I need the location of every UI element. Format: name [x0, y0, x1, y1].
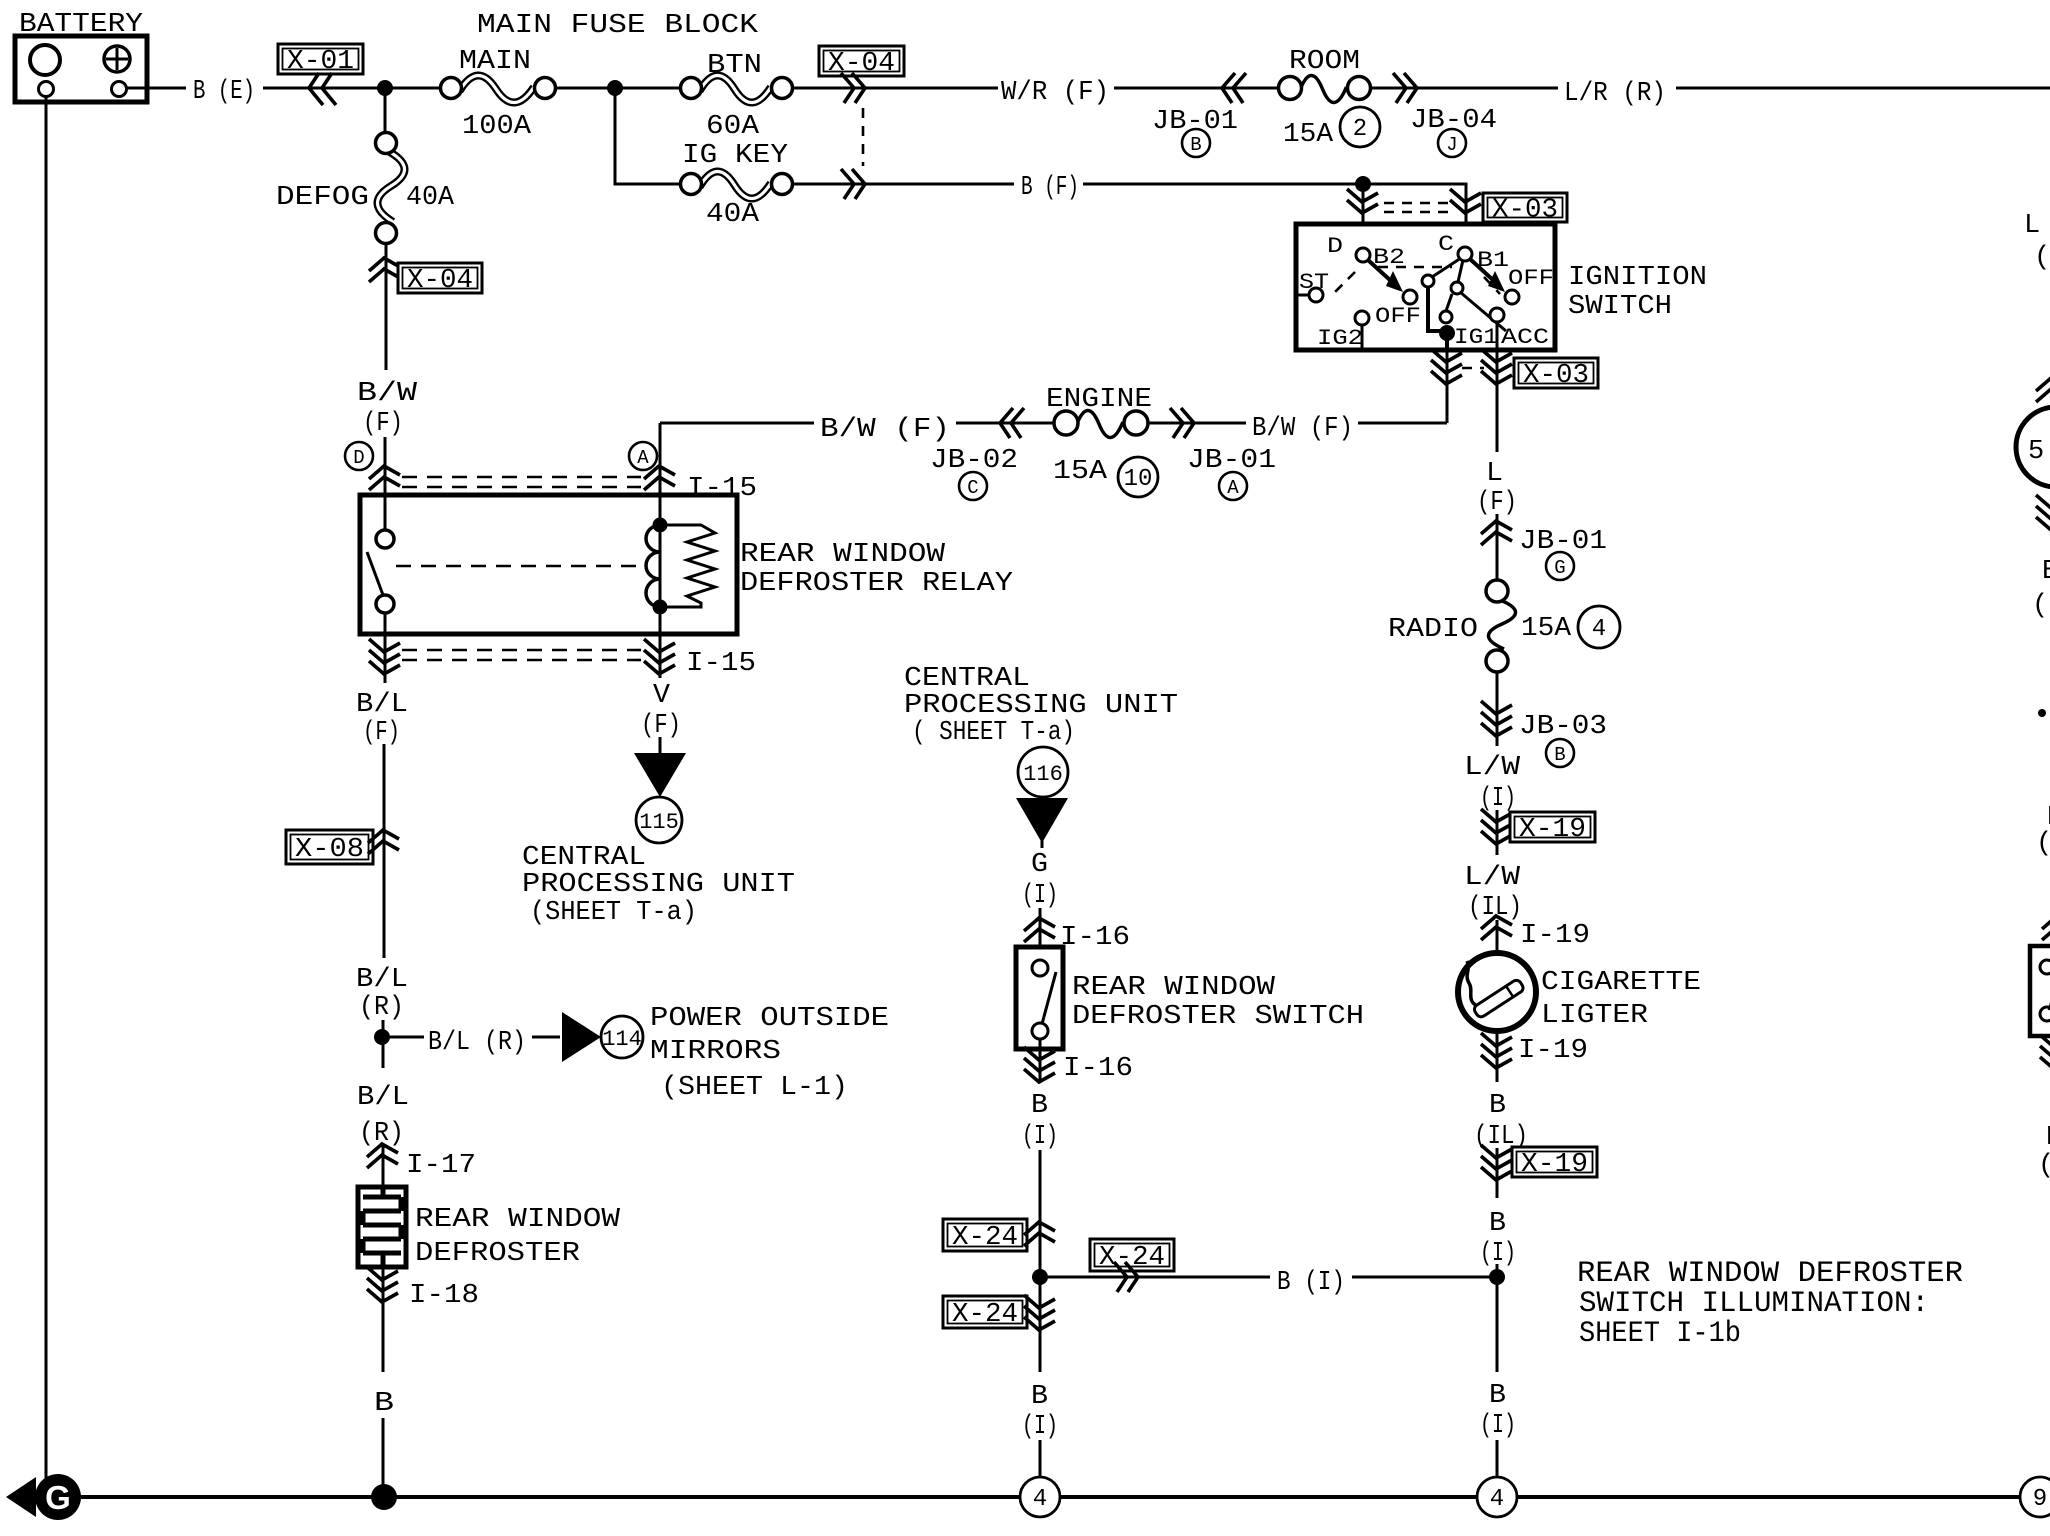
wire to ground circle 4 right	[1496, 1440, 1499, 1477]
wire illumination link right segment	[1352, 1276, 1497, 1279]
adjacent circuit switch box fragment	[2030, 946, 2050, 1036]
wire label L (F)	[1477, 459, 1517, 518]
svg-text:IG2: IG2	[1317, 326, 1363, 351]
wire ACC down to L (F)	[1496, 350, 1499, 452]
svg-text:B (F): B (F)	[1021, 173, 1079, 203]
connector JB-02 (C)	[930, 408, 1024, 500]
svg-text:B/W: B/W	[357, 379, 418, 409]
svg-text:L/W: L/W	[1464, 753, 1521, 783]
svg-text:I-17: I-17	[406, 1151, 476, 1181]
adjacent circuit connector fragment lower	[2040, 1035, 2050, 1070]
svg-text:5: 5	[2028, 437, 2044, 467]
svg-text:(F): (F)	[363, 409, 403, 439]
svg-text:(I): (I)	[2036, 829, 2050, 859]
svg-text:B (E): B (E)	[193, 77, 255, 107]
wire battery negative to ground bus	[45, 97, 48, 1497]
svg-text:C: C	[967, 477, 978, 499]
svg-text:B/L: B/L	[357, 1083, 409, 1113]
wire B/L (F) to X-08	[383, 744, 386, 958]
wire junction down to DEFOG fuse	[384, 88, 387, 133]
svg-text:(SHEET L-1): (SHEET L-1)	[661, 1073, 848, 1103]
relay resistor	[660, 525, 715, 607]
wire label B/L (R) lower	[357, 1083, 409, 1149]
connector I-17	[367, 1144, 476, 1181]
rear window defroster switch illumination note	[1577, 1257, 1963, 1351]
fuse DEFOG 40A	[276, 133, 455, 244]
ground node 4 right	[1477, 1477, 1517, 1517]
wire branch down to relay	[659, 423, 662, 495]
svg-text:2: 2	[1353, 116, 1367, 143]
svg-text:JB-03: JB-03	[1519, 712, 1607, 742]
svg-text:L: L	[2024, 211, 2040, 241]
wire branch to power outside mirrors	[390, 1036, 424, 1039]
wire label B (I) upper	[1022, 1091, 1058, 1152]
svg-text:CENTRAL: CENTRAL	[904, 664, 1030, 694]
svg-text:9: 9	[2033, 1486, 2047, 1513]
connector I-15 (lower)	[369, 639, 756, 679]
wire ENGINE fuse right	[1148, 422, 1246, 425]
svg-text:D: D	[1327, 234, 1343, 259]
wire DEFOG fuse to B/W label	[385, 243, 388, 370]
connector X-08	[286, 830, 399, 865]
wire B (I) to junction right	[1496, 1264, 1499, 1277]
rear window defroster switch S1	[1016, 947, 1063, 1049]
svg-text:RADIO: RADIO	[1388, 615, 1478, 645]
svg-text:A: A	[1227, 477, 1239, 499]
wire to ENGINE fuse	[956, 422, 1054, 425]
mechanical link dashes (poles)	[1378, 266, 1452, 269]
svg-text:ST: ST	[1299, 270, 1329, 295]
svg-text:IG KEY: IG KEY	[682, 141, 788, 171]
node mirrors branch junction	[374, 1029, 390, 1045]
connector I-19 (lower)	[1481, 1033, 1588, 1068]
pin IG2	[1317, 311, 1369, 351]
svg-text:X-03: X-03	[1492, 196, 1558, 226]
wire defroster to ground	[382, 1267, 385, 1372]
svg-text:116: 116	[1023, 762, 1063, 787]
wire W/R (F) to ROOM fuse	[1114, 87, 1278, 90]
svg-text:114: 114	[602, 1027, 642, 1052]
svg-text:I-19: I-19	[1520, 921, 1590, 951]
svg-text:I-16: I-16	[1063, 1054, 1133, 1084]
svg-text:X-19: X-19	[1519, 815, 1586, 845]
connector X-03 (lower)	[1431, 349, 1598, 391]
svg-text:4: 4	[1592, 616, 1606, 643]
svg-text:B: B	[1489, 1381, 1506, 1411]
node 116 circled	[1018, 747, 1068, 797]
svg-text:(F): (F)	[1477, 488, 1517, 518]
relay K1 rear window defroster box	[360, 495, 737, 634]
wire B/W (F) to IG1 corner	[1358, 422, 1447, 425]
ground bus	[30, 1495, 2050, 1499]
node A circled	[629, 442, 657, 470]
wire B/L (R) to defroster	[382, 1146, 385, 1187]
svg-text:MIRRORS: MIRRORS	[650, 1037, 781, 1067]
adjacent circuit wire label L (R) fragment	[2024, 211, 2050, 273]
node defroster switch illumination junction right	[1489, 1269, 1505, 1285]
svg-text:DEFROSTER: DEFROSTER	[415, 1239, 580, 1269]
adjacent circuit wire label B (R) fragment	[2032, 557, 2050, 621]
wire junction to terminal D	[1362, 184, 1365, 248]
svg-text:B: B	[1031, 1382, 1048, 1412]
svg-text:B: B	[1554, 744, 1565, 766]
svg-text:G: G	[45, 1479, 71, 1516]
connector X-04 (IG KEY line)	[841, 169, 865, 199]
adjacent circuit wire label B (I) fragment	[2038, 1123, 2050, 1181]
svg-text:B: B	[1489, 1209, 1506, 1239]
wire junction to ground right	[1496, 1277, 1499, 1372]
ignition switch label	[1568, 263, 1707, 322]
svg-text:ROOM: ROOM	[1289, 47, 1360, 77]
wire arrow to G (I) label	[1041, 840, 1044, 848]
svg-text:PROCESSING UNIT: PROCESSING UNIT	[904, 691, 1178, 721]
mechanical link dashes (right)	[1484, 277, 1500, 294]
wire engine fuse line left	[660, 422, 814, 425]
svg-text:CIGARETTE: CIGARETTE	[1541, 968, 1701, 998]
node 114 circled	[601, 1016, 643, 1058]
connector I-19 (upper)	[1481, 916, 1590, 951]
connector I-15 (upper)	[369, 466, 757, 504]
svg-text:4: 4	[1490, 1486, 1504, 1513]
node D circled	[345, 442, 373, 470]
connector JB-04 (J)	[1393, 73, 1497, 157]
svg-text:X-24: X-24	[952, 1223, 1018, 1253]
switch contact feeler left	[1422, 258, 1461, 287]
svg-text:115: 115	[639, 810, 679, 835]
svg-text:(I): (I)	[2038, 1151, 2050, 1181]
svg-text:100A: 100A	[462, 112, 532, 142]
rear window defroster label	[415, 1205, 621, 1269]
cigarette lighter E1	[1458, 953, 1536, 1031]
svg-text:REAR WINDOW: REAR WINDOW	[415, 1205, 621, 1235]
wire IG1 to box bottom	[1445, 333, 1449, 350]
svg-text:(I): (I)	[1022, 1412, 1058, 1442]
connector X-24 (on link)	[1090, 1239, 1174, 1292]
svg-text:X-04: X-04	[828, 49, 895, 79]
wire label B (IL)	[1474, 1091, 1528, 1152]
node battery feed junction	[377, 80, 393, 96]
wire lighter to B (IL)	[1496, 1031, 1499, 1082]
connector X-01	[278, 44, 363, 105]
connector X-04 (BTN line)	[819, 46, 904, 103]
wire relay switch output B/L (F)	[384, 634, 387, 683]
ground symbol G	[6, 1474, 81, 1520]
central processing unit label (116)	[904, 664, 1178, 748]
svg-text:B: B	[374, 1389, 394, 1419]
svg-text:PROCESSING UNIT: PROCESSING UNIT	[522, 870, 795, 900]
svg-text:B/L: B/L	[356, 690, 408, 720]
svg-text:C: C	[1438, 232, 1454, 257]
mechanical link dashes (left)	[1333, 272, 1355, 294]
wire B (E) to junction	[263, 87, 451, 90]
svg-text:G: G	[1554, 557, 1565, 579]
svg-text:MAIN FUSE BLOCK: MAIN FUSE BLOCK	[477, 11, 759, 41]
svg-text:ACC: ACC	[1501, 325, 1549, 350]
svg-text:G: G	[1031, 850, 1048, 880]
fuse MAIN 100A	[441, 47, 556, 142]
svg-text:B: B	[1190, 134, 1201, 156]
arrow to power outside mirrors 114	[562, 1012, 601, 1062]
adjacent circuit connector fragment upper	[2036, 378, 2050, 402]
rear window defroster heater element	[358, 1187, 406, 1267]
node ignition feed junction	[1355, 176, 1371, 192]
switch arm B2-OFF	[1368, 260, 1417, 304]
relay internal dashed link	[396, 565, 638, 568]
svg-text:L/W: L/W	[1464, 863, 1521, 893]
svg-text:I-16: I-16	[1060, 923, 1130, 953]
svg-text:DEFOG: DEFOG	[276, 183, 369, 213]
connector X-03 (upper)	[1347, 189, 1567, 226]
adjacent circuit bulb 5 fragment	[2016, 407, 2050, 487]
arrow from central processing unit 116	[1016, 798, 1068, 843]
wire label V (F)	[641, 681, 681, 741]
connector X-19 (lower)	[1481, 1145, 1597, 1180]
svg-text:CENTRAL: CENTRAL	[522, 843, 646, 873]
svg-text:SWITCH ILLUMINATION:: SWITCH ILLUMINATION:	[1579, 1287, 1929, 1321]
adjacent circuit connector fragment mid	[2042, 916, 2050, 940]
svg-text:REAR WINDOW: REAR WINDOW	[1072, 973, 1276, 1003]
ground node 4 left	[1020, 1477, 1060, 1517]
wire L (F) to RADIO fuse	[1496, 514, 1499, 581]
fuse ROOM 15A	[1279, 47, 1381, 150]
svg-text:SHEET I-1b: SHEET I-1b	[1579, 1317, 1741, 1351]
wire relay coil output to CPU arrow	[659, 634, 662, 678]
wire G (I) to defroster switch	[1039, 908, 1042, 968]
pin C	[1438, 232, 1472, 261]
svg-text:(R): (R)	[359, 993, 404, 1023]
svg-text:(R): (R)	[2032, 591, 2050, 621]
svg-text:B: B	[2046, 1123, 2050, 1153]
svg-text:A: A	[637, 447, 649, 469]
pin ST	[1296, 270, 1329, 302]
relay label	[740, 540, 1013, 599]
svg-text:(F): (F)	[641, 711, 681, 741]
svg-text:B/W (F): B/W (F)	[820, 415, 950, 445]
svg-text:(SHEET T-a): (SHEET T-a)	[530, 898, 697, 928]
svg-text:SWITCH: SWITCH	[1568, 292, 1672, 322]
wire B (F) to ignition switch	[1083, 184, 1466, 247]
svg-text:IG1: IG1	[1454, 325, 1498, 350]
svg-text:(F): (F)	[363, 718, 400, 748]
svg-text:V: V	[653, 681, 671, 711]
wire BTN fuse to X-04	[792, 87, 998, 90]
switch arm to ACC	[1460, 292, 1506, 331]
svg-text:X-08: X-08	[295, 835, 364, 865]
svg-text:D: D	[353, 447, 364, 469]
svg-text:X-01: X-01	[287, 47, 354, 77]
switch arm B1-OFF	[1470, 259, 1519, 304]
wire L/R (R) to sheet edge	[1676, 87, 2050, 90]
svg-text:LIGTER: LIGTER	[1541, 1001, 1648, 1031]
svg-text:15A: 15A	[1053, 457, 1108, 487]
svg-text:MAIN: MAIN	[459, 47, 531, 77]
svg-text:(I): (I)	[1022, 1122, 1058, 1152]
svg-text:REAR WINDOW: REAR WINDOW	[740, 540, 946, 570]
switch contact feeler middle	[1451, 260, 1463, 294]
connector JB-01 (B)	[1152, 73, 1246, 157]
connector I-16 (upper)	[1024, 918, 1130, 953]
svg-text:(R): (R)	[2034, 243, 2050, 273]
svg-text:X-04: X-04	[407, 266, 473, 296]
connector X-24 (below junction)	[943, 1295, 1055, 1330]
adjacent circuit dot fragment	[2038, 709, 2046, 717]
connector X-04 dashed link	[862, 108, 865, 166]
wire label G (I)	[1022, 850, 1058, 911]
svg-text:OFF: OFF	[1508, 266, 1554, 291]
wire V (F) to arrow	[659, 737, 662, 756]
wire B/L (R) segment	[382, 1020, 385, 1068]
ignition switch U1 box	[1296, 224, 1555, 350]
svg-text:B/L (R): B/L (R)	[428, 1028, 526, 1058]
connector JB-01 (G)	[1481, 521, 1607, 580]
svg-text:L/R (R): L/R (R)	[1564, 79, 1666, 109]
svg-text:15A: 15A	[1521, 614, 1572, 644]
wire illumination link left segment	[1040, 1276, 1270, 1279]
relay coil	[646, 495, 668, 634]
wire B (IL) to X-19	[1496, 1148, 1499, 1198]
svg-text:(I): (I)	[1022, 881, 1058, 911]
rear window defroster switch label	[1072, 973, 1364, 1032]
battery	[15, 36, 147, 102]
wire battery positive to B (E)	[127, 87, 186, 90]
node defroster switch illumination junction left	[1032, 1269, 1048, 1285]
wire L/W (IL) to cigarette lighter	[1496, 920, 1499, 953]
connector JB-01 (A)	[1170, 408, 1276, 500]
svg-text:X-03: X-03	[1523, 361, 1589, 391]
svg-text:B: B	[2042, 557, 2050, 587]
ground node 9	[2020, 1477, 2050, 1517]
svg-text:X-24: X-24	[952, 1300, 1018, 1330]
svg-text:L: L	[1486, 459, 1503, 489]
wire MAIN fuse to junction	[555, 87, 680, 90]
central processing unit label (115)	[522, 843, 795, 928]
svg-text:REAR WINDOW DEFROSTER: REAR WINDOW DEFROSTER	[1577, 1257, 1963, 1291]
svg-text:B (I): B (I)	[1277, 1268, 1345, 1298]
svg-text:B/W (F): B/W (F)	[1252, 414, 1353, 444]
wire label B (I) ground left	[1022, 1382, 1058, 1442]
fuse BTN 60A	[681, 51, 793, 142]
relay switch contact	[367, 495, 394, 634]
svg-text:I-19: I-19	[1518, 1036, 1588, 1066]
svg-text:POWER OUTSIDE: POWER OUTSIDE	[650, 1004, 889, 1034]
pin D	[1327, 234, 1370, 262]
svg-text:I-15: I-15	[686, 649, 756, 679]
wire label B/W (F) vertical	[357, 379, 418, 439]
svg-text:( SHEET T-a): ( SHEET T-a)	[912, 718, 1075, 748]
connector JB-03 (B)	[1481, 701, 1607, 767]
wire label B (I) ground right	[1480, 1381, 1516, 1441]
connector X-19 (upper)	[1481, 809, 1595, 845]
wire label B/L (F)	[356, 690, 408, 748]
cigarette lighter label	[1541, 968, 1701, 1031]
power outside mirrors label	[650, 1004, 889, 1103]
wire B to ground bus	[382, 1418, 385, 1497]
svg-text:IGNITION: IGNITION	[1568, 263, 1707, 293]
wire B (I) to junction	[1039, 1150, 1042, 1277]
node ground junction	[371, 1484, 397, 1510]
wire ROOM fuse to L/R label	[1370, 87, 1558, 90]
svg-text:W/R (F): W/R (F)	[1001, 78, 1109, 108]
svg-text:10: 10	[1124, 466, 1153, 493]
fuse RADIO 15A	[1388, 580, 1620, 672]
fuse ENGINE 15A	[1046, 385, 1158, 497]
wire IG1 link	[1428, 287, 1455, 341]
svg-text:40A: 40A	[706, 200, 760, 230]
wire ACC to box bottom	[1496, 322, 1499, 350]
node BTN/IG-KEY branch junction	[607, 80, 623, 96]
wire IG1 down to engine fuse line	[1446, 350, 1449, 423]
svg-text:B/L: B/L	[356, 965, 408, 995]
svg-text:OFF: OFF	[1375, 304, 1421, 329]
wire to mirrors arrow	[532, 1036, 560, 1039]
wire to ground circle 4 left	[1039, 1440, 1042, 1477]
connector I-18	[367, 1267, 479, 1311]
wire junction to ground left	[1039, 1277, 1042, 1372]
svg-text:15A: 15A	[1283, 120, 1334, 150]
wire label B (I) right	[1480, 1209, 1516, 1269]
svg-text:J: J	[1446, 134, 1457, 156]
svg-text:DEFROSTER SWITCH: DEFROSTER SWITCH	[1072, 1002, 1364, 1032]
svg-text:X-19: X-19	[1521, 1150, 1588, 1180]
node 115 circled	[636, 797, 682, 843]
svg-text:60A: 60A	[706, 112, 760, 142]
svg-text:(I): (I)	[1480, 1411, 1516, 1441]
wire RADIO fuse to JB-03	[1496, 672, 1499, 746]
adjacent circuit connector fragment	[2036, 495, 2050, 530]
connector I-16 (lower)	[1024, 1047, 1133, 1084]
connector X-04 (DEFOG line)	[369, 258, 482, 296]
connector X-24 (above junction)	[943, 1219, 1055, 1253]
svg-text:B: B	[1031, 1091, 1048, 1121]
arrow to central processing unit 115	[634, 753, 686, 797]
wire label L/W (I)	[1464, 753, 1521, 814]
svg-text:4: 4	[1033, 1486, 1047, 1513]
svg-text:40A: 40A	[406, 183, 455, 213]
svg-text:DEFROSTER RELAY: DEFROSTER RELAY	[740, 569, 1013, 599]
wire L/W (I) to X-19	[1496, 810, 1499, 855]
wire B/W to relay	[384, 437, 387, 495]
wire switch output B (I)	[1039, 1039, 1042, 1082]
wire junction down to IG KEY fuse	[615, 88, 680, 184]
wire IG KEY fuse to B (F) label	[792, 183, 1014, 186]
wire label B/L (R) upper	[356, 965, 408, 1023]
fuse IG KEY 40A	[681, 141, 793, 230]
svg-text:(I): (I)	[1480, 784, 1516, 814]
wire label L/W (IL)	[1464, 863, 1522, 923]
adjacent circuit wire label fragment	[2036, 803, 2050, 859]
svg-text:B: B	[1489, 1091, 1506, 1121]
svg-text:I-18: I-18	[409, 1281, 479, 1311]
